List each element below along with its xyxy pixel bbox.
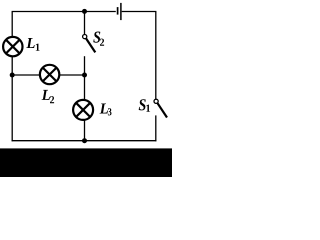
switch S1 hinge [154, 99, 158, 103]
label L2 [42, 90, 50, 100]
label L3 [100, 104, 108, 114]
lamp L3 [73, 100, 93, 120]
lamp L2 [40, 65, 59, 84]
switch S2 blade [86, 38, 95, 52]
battery long plate [120, 3, 122, 20]
wire top-left segment [12, 11, 116, 13]
node bottom junction dot [82, 138, 87, 143]
black bar bottom [0, 148, 172, 177]
label S2 [93, 32, 100, 43]
wire top-right segment [122, 11, 157, 13]
node top junction dot [82, 9, 87, 14]
wire right lower from S1 [155, 115, 157, 141]
wire L2 branch [12, 74, 84, 76]
wire bottom [12, 140, 157, 142]
label L1 [26, 38, 34, 48]
switch S2 hinge [83, 35, 87, 39]
node left junction dot [10, 73, 15, 78]
label S1 [139, 99, 146, 110]
node middle junction dot [82, 73, 87, 78]
wire middle branch upper to S2 [84, 12, 86, 35]
switch S1 blade [158, 103, 168, 117]
wire middle branch lower through L3 [84, 56, 86, 141]
lamp L1 [3, 37, 22, 56]
wire right upper to S1 [155, 12, 157, 100]
battery short plate [117, 7, 119, 15]
wire left [11, 12, 13, 142]
